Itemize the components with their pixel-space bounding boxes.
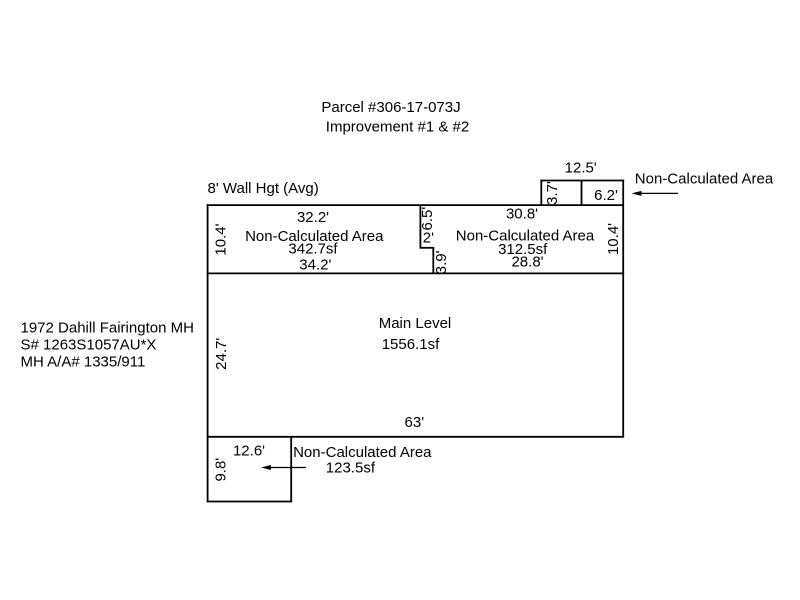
svg-text:63': 63': [405, 414, 425, 431]
svg-text:8' Wall Hgt (Avg): 8' Wall Hgt (Avg): [208, 180, 319, 197]
wall: left edge: [207, 204, 209, 502]
svg-text:Improvement #1 & #2: Improvement #1 & #2: [326, 118, 469, 135]
svg-text:24.7': 24.7': [213, 338, 230, 370]
wall: small box top edge: [540, 180, 624, 182]
svg-text:12.6': 12.6': [233, 442, 265, 459]
wall: strip/main divider: [207, 272, 624, 274]
svg-text:Non-Calculated Area: Non-Calculated Area: [635, 171, 774, 188]
svg-text:S# 1263S1057AU*X: S# 1263S1057AU*X: [21, 337, 157, 354]
svg-text:Parcel #306-17-073J: Parcel #306-17-073J: [321, 99, 460, 116]
wall: main bottom edge: [207, 436, 624, 438]
wall: strip notch lower segment: [432, 248, 434, 274]
svg-text:6.5': 6.5': [419, 207, 436, 231]
wall: right edge: [622, 180, 624, 438]
svg-text:30.8': 30.8': [506, 205, 538, 222]
svg-text:1556.1sf: 1556.1sf: [382, 336, 440, 353]
svg-text:342.7sf: 342.7sf: [288, 241, 338, 258]
wall: strip top edge: [207, 204, 624, 206]
svg-text:Main Level: Main Level: [379, 315, 452, 332]
svg-text:123.5sf: 123.5sf: [326, 459, 376, 476]
svg-text:12.5': 12.5': [565, 159, 597, 176]
arrow to 6.2' box: [640, 192, 678, 194]
svg-text:9.8': 9.8': [213, 458, 230, 482]
svg-text:10.4': 10.4': [213, 223, 230, 255]
svg-text:34.2': 34.2': [299, 257, 331, 274]
svg-text:1972 Dahill Fairington MH: 1972 Dahill Fairington MH: [21, 320, 194, 337]
arrow to bottom rect: [269, 467, 306, 469]
svg-text:10.4': 10.4': [605, 223, 622, 255]
wall: bottom rect right edge: [290, 437, 292, 502]
svg-text:32.2': 32.2': [297, 209, 329, 226]
svg-text:3.7': 3.7': [544, 181, 561, 205]
wall: strip notch step: [420, 247, 435, 249]
wall: small box divider: [581, 181, 583, 206]
wall: bottom rect bottom edge: [207, 501, 292, 503]
wall: strip notch upper segment: [419, 205, 421, 248]
svg-text:3.9': 3.9': [433, 250, 450, 274]
svg-text:6.2': 6.2': [594, 187, 618, 204]
wall: small box left edge: [540, 180, 542, 206]
svg-text:28.8': 28.8': [511, 254, 543, 271]
svg-text:MH A/A# 1335/911: MH A/A# 1335/911: [21, 353, 146, 370]
svg-text:2': 2': [423, 230, 434, 247]
